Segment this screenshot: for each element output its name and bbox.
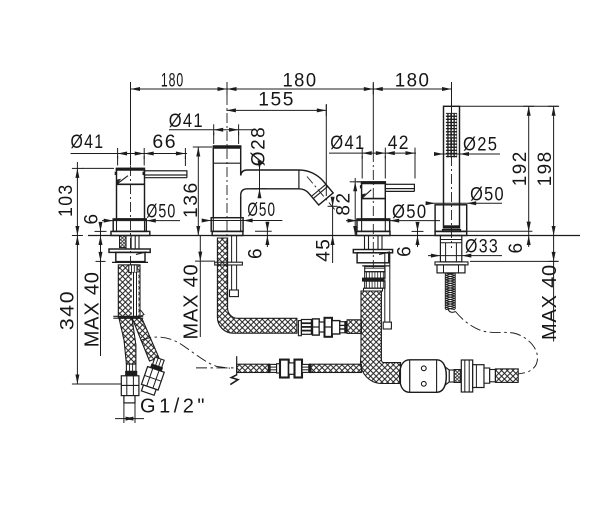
svg-text:340: 340: [58, 290, 79, 330]
fixture3 shank tubes: [364, 236, 366, 250]
handle1 lever: [144, 171, 187, 175]
handle2 lever: [385, 184, 414, 188]
hose B hex nut: [141, 367, 164, 391]
svg-text:6: 6: [395, 245, 416, 257]
dimension 6 fixture1: [100, 222, 102, 245]
hose B collar: [151, 364, 163, 371]
fixture4 threaded rod spring: [445, 273, 455, 310]
dimension 136: [197, 147, 199, 236]
svg-text:180: 180: [283, 70, 318, 91]
dimension Ø41 / 66 fixture1: [71, 153, 188, 155]
fixture3 rod foot: [383, 322, 391, 329]
fixture2 centerline: [226, 95, 228, 300]
svg-text:Ø41: Ø41: [169, 111, 204, 132]
spout hose striped ferrule: [301, 320, 311, 335]
bottom hose dark band right: [309, 364, 311, 374]
dimension G1/2: [123, 403, 125, 423]
fixture1 braided hose upper: [118, 265, 140, 317]
handle1 base cylinder Ø50: [113, 219, 146, 231]
fixture1 shank tubes: [125, 236, 127, 250]
fixture4 centerline: [451, 120, 453, 248]
svg-text:Ø50: Ø50: [146, 202, 176, 223]
svg-text:Ø50: Ø50: [247, 200, 276, 221]
spout column: [212, 146, 214, 218]
dimension 192: [528, 106, 530, 231]
spout hose double block: [313, 319, 320, 335]
svg-text:Ø50: Ø50: [470, 185, 505, 206]
hose A pipe end G1/2: [124, 396, 135, 403]
shower collar: [443, 230, 461, 232]
diverter block medium: [473, 365, 484, 388]
fixture4 washer: [435, 262, 468, 265]
diverter braid tail: [495, 369, 518, 383]
bottom hose nut 1: [280, 360, 289, 378]
svg-text:Ø25: Ø25: [463, 134, 498, 155]
svg-text:6: 6: [246, 247, 267, 259]
spout base cylinder: [211, 218, 243, 232]
svg-text:103: 103: [56, 183, 77, 217]
svg-text:198: 198: [535, 150, 556, 186]
svg-text:MAX 40: MAX 40: [181, 264, 203, 340]
dimension Ø25: [434, 153, 500, 155]
dimension Ø50 fixture3: [346, 220, 440, 222]
diverter nipple: [490, 370, 496, 382]
fixture2 rod foot: [230, 290, 239, 297]
fixture1 centerline: [130, 148, 132, 266]
fixture3 band 2: [364, 288, 383, 291]
dimension 45: [332, 199, 334, 263]
spout hose block: [332, 321, 340, 334]
handle2 side nub: [360, 185, 362, 188]
shower handle cylinder: [444, 106, 460, 228]
hose B ferrule: [153, 357, 165, 368]
svg-text:MAX 40: MAX 40: [539, 264, 561, 340]
svg-text:192: 192: [510, 150, 531, 186]
spout hose braid tail: [347, 320, 361, 334]
bottom hose braid right: [311, 364, 361, 372]
spout hose hex nut: [325, 318, 333, 337]
handle1 body: [117, 168, 145, 219]
svg-text:Ø33: Ø33: [465, 237, 499, 258]
dimension 340: [76, 236, 78, 385]
svg-text:MAX 40: MAX 40: [81, 271, 103, 347]
bottom hose ferrule right: [302, 364, 309, 372]
spout hose collar: [298, 321, 301, 336]
dimension 198: [553, 106, 555, 235]
diverter barrel body: [400, 360, 447, 393]
diverter small hatched block: [454, 370, 461, 383]
fixture1 hose A lower braid: [119, 318, 136, 364]
extension line shower top: [460, 105, 559, 107]
svg-text:G1/2": G1/2": [140, 396, 208, 418]
handle2 joint line and diagonal: [362, 198, 386, 200]
bottom hose dark band left: [268, 364, 270, 374]
shower holder plate: [435, 231, 467, 235]
svg-text:Ø41: Ø41: [330, 133, 365, 154]
svg-text:Ø41: Ø41: [71, 132, 105, 153]
fixture1 hose B braid diagonal: [132, 318, 159, 361]
dash-dot shower hose route: [456, 312, 538, 374]
fixture4 shank: [440, 236, 461, 262]
fixture3 dark band: [363, 278, 384, 281]
dimension Ø28: [259, 162, 261, 196]
spout base plate: [212, 231, 243, 235]
diverter hex union tall: [461, 360, 472, 392]
bottom hose start line: [236, 356, 238, 375]
diverter block small: [484, 368, 490, 383]
top dimension chain 180/180/180: [131, 88, 452, 90]
fixture3 centerline: [372, 152, 374, 268]
dimension Ø50 fixture1: [102, 220, 180, 222]
svg-text:180: 180: [161, 71, 184, 92]
diverter ferrule: [449, 370, 454, 382]
spout nozzle centerline: [307, 177, 339, 215]
bottom hose ferrule left: [270, 364, 277, 372]
svg-text:66: 66: [152, 132, 177, 153]
dimension 6 fixture3: [417, 222, 419, 247]
dimension Ø50 fixture2: [202, 220, 282, 222]
spout joint line: [213, 162, 240, 164]
spout hose dark band: [345, 321, 347, 333]
dash-dot line into bottom hose: [196, 367, 236, 369]
fixture3 compression rings: [365, 267, 385, 272]
handle1 joint line and diagonal: [117, 183, 145, 185]
dash-dot hose route from fixture1: [141, 337, 231, 368]
svg-text:6: 6: [506, 241, 527, 253]
svg-text:136: 136: [181, 181, 202, 218]
handle2 body: [362, 182, 386, 219]
fixture3 mounting nut: [353, 250, 392, 253]
deck line right tick: [554, 235, 558, 237]
handle1 base plate: [111, 231, 150, 235]
dimension MAX 40 fixture2: [199, 236, 201, 338]
fixture4 hex nut: [437, 265, 465, 273]
bottom hose neck: [289, 363, 295, 374]
dimension 82: [354, 178, 356, 236]
svg-text:180: 180: [395, 71, 431, 92]
fixture1 shank threaded block: [120, 236, 127, 248]
fixture3 mounting rod: [384, 253, 386, 322]
shower grip knurl: [446, 113, 457, 157]
svg-text:155: 155: [258, 90, 295, 111]
svg-text:Ø50: Ø50: [392, 202, 427, 223]
fixture1 mounting nut: [109, 249, 150, 252]
diverter outlet cone: [445, 367, 450, 386]
handle1 side nubs: [115, 172, 117, 175]
svg-text:42: 42: [388, 133, 410, 154]
handle2 top cap: [361, 182, 386, 185]
hose A ferrule: [126, 364, 135, 371]
bottom hose nut 2: [295, 360, 303, 378]
bottom hose break symbol: [230, 375, 238, 385]
deck line: [88, 235, 580, 237]
dimension MAX 40 fixture1: [100, 236, 102, 357]
fixture1 inner rod: [132, 273, 139, 317]
dimension Ø41 fixture2: [169, 129, 253, 131]
hose A hex nut: [121, 376, 139, 396]
extension line holder plate top: [467, 230, 533, 232]
dimension 103: [76, 162, 78, 236]
spring hook end: [448, 309, 456, 312]
hose B end cap: [141, 385, 156, 395]
dimension 6 fixture2: [266, 222, 268, 247]
svg-text:6: 6: [82, 212, 103, 224]
shower holder cup: [435, 205, 467, 232]
extension line spout tip: [325, 104, 327, 196]
hose A collar: [126, 371, 137, 375]
shower bottom cap: [444, 225, 460, 228]
dimension Ø41 / 42 fixture3: [329, 152, 416, 154]
spout arm: [241, 170, 299, 176]
bottom hose spacer: [277, 364, 280, 373]
svg-text:45: 45: [314, 238, 335, 262]
dimension Ø50 fixture4: [427, 202, 502, 204]
diverter screws: [421, 366, 426, 371]
spout aerator lines: [313, 186, 327, 198]
handle2 base cylinder: [357, 219, 390, 231]
svg-text:Ø28: Ø28: [249, 126, 270, 166]
fixture2 braided hose with bend: [217, 238, 297, 333]
handle1 top cap: [116, 168, 144, 171]
hose break symbol: [113, 315, 143, 317]
spout bend and nozzle: [299, 170, 333, 205]
spout joint line: [298, 170, 300, 189]
spout hose ringed nipple: [340, 322, 345, 333]
fixture2 nut bar: [215, 262, 243, 265]
extension lines from top chain: [130, 82, 132, 166]
fixture3 braided hose with bend to barrel: [361, 291, 401, 384]
dimension 6 fixture4: [528, 231, 530, 247]
fixture1 hose ferrule: [129, 265, 137, 273]
dimension 155 spout projection: [226, 109, 326, 111]
handle2 base plate: [357, 231, 391, 235]
spout hose neck: [319, 322, 324, 332]
svg-text:82: 82: [334, 191, 355, 215]
dimension Ø33: [428, 255, 502, 257]
dimension MAX 40 fixture4: [553, 236, 555, 342]
fixture3 knurled band 2: [365, 281, 385, 288]
fixture3 knurled band: [365, 272, 385, 278]
fixture2 mounting rod: [231, 236, 233, 291]
bottom hose braid left: [237, 364, 269, 372]
